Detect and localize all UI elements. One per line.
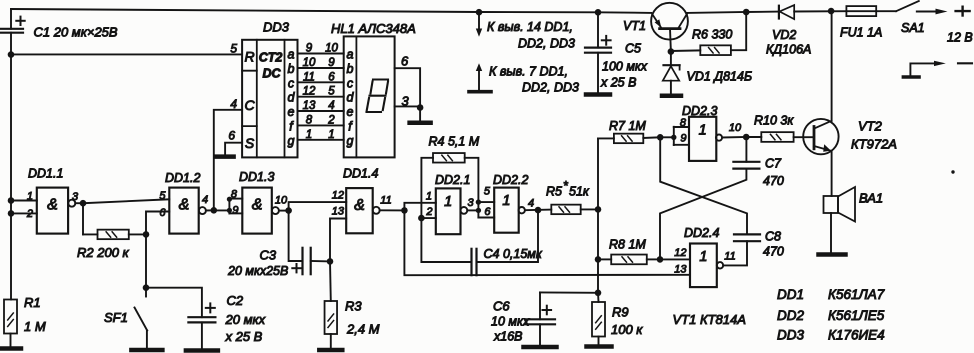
svg-text:470: 470 xyxy=(763,245,784,259)
svg-text:c: c xyxy=(288,76,295,90)
svg-text:1: 1 xyxy=(328,129,334,141)
svg-text:6: 6 xyxy=(401,54,409,69)
svg-text:20 мкх: 20 мкх xyxy=(225,312,266,327)
svg-text:S: S xyxy=(245,135,255,151)
svg-text:SA1: SA1 xyxy=(901,21,925,35)
svg-text:FU1 1А: FU1 1А xyxy=(840,26,882,40)
svg-text:R1: R1 xyxy=(24,295,41,310)
svg-text:a: a xyxy=(288,48,295,62)
svg-text:DD2: DD2 xyxy=(777,308,804,323)
svg-text:10 мкх: 10 мкх xyxy=(491,315,530,329)
svg-text:R10 3к: R10 3к xyxy=(754,114,794,128)
svg-text:10: 10 xyxy=(275,195,288,207)
svg-text:4: 4 xyxy=(328,100,334,112)
svg-text:К561ЛА7: К561ЛА7 xyxy=(828,287,885,302)
svg-text:6: 6 xyxy=(159,207,166,219)
svg-text:DD2.3: DD2.3 xyxy=(682,104,717,118)
svg-text:3: 3 xyxy=(467,197,474,209)
svg-text:х16В: х16В xyxy=(493,330,523,344)
svg-text:VD2: VD2 xyxy=(772,28,796,42)
svg-text:13: 13 xyxy=(303,100,316,112)
svg-text:С1 20 мк×25В: С1 20 мк×25В xyxy=(34,25,118,40)
svg-text:12: 12 xyxy=(332,190,344,202)
svg-text:VT2: VT2 xyxy=(858,119,883,134)
svg-text:10: 10 xyxy=(303,57,316,69)
svg-text:3: 3 xyxy=(402,94,410,109)
svg-text:R9: R9 xyxy=(612,305,629,320)
svg-text:DD1.2: DD1.2 xyxy=(165,171,200,185)
svg-text:9: 9 xyxy=(328,57,335,69)
svg-text:2,4 М: 2,4 М xyxy=(346,322,380,337)
svg-text:11: 11 xyxy=(303,71,315,83)
svg-text:100 к: 100 к xyxy=(611,322,643,337)
svg-text:DD2, DD3: DD2, DD3 xyxy=(518,37,575,51)
svg-text:12: 12 xyxy=(303,86,316,98)
svg-text:11: 11 xyxy=(380,195,391,207)
svg-text:100 мкх: 100 мкх xyxy=(602,60,648,74)
svg-text:С7: С7 xyxy=(765,157,782,171)
svg-text:10: 10 xyxy=(325,43,338,55)
svg-text:1: 1 xyxy=(306,129,312,141)
svg-text:К выв. 7 DD1,: К выв. 7 DD1, xyxy=(489,65,568,79)
svg-text:d: d xyxy=(347,91,355,105)
svg-text:1: 1 xyxy=(426,191,432,203)
svg-text:e: e xyxy=(288,105,295,119)
svg-text:b: b xyxy=(347,62,354,76)
svg-text:2: 2 xyxy=(327,114,335,126)
svg-text:х 25 В: х 25 В xyxy=(225,329,263,344)
svg-text:13: 13 xyxy=(332,206,345,218)
svg-text:DD1.1: DD1.1 xyxy=(28,167,63,181)
svg-text:DD2.2: DD2.2 xyxy=(493,173,528,187)
svg-text:VT1 КТ814А: VT1 КТ814А xyxy=(673,312,746,327)
svg-text:R2 200 к: R2 200 к xyxy=(77,245,130,260)
svg-text:51к: 51к xyxy=(569,185,590,199)
svg-text:C: C xyxy=(244,97,255,113)
svg-text:HL1 АЛС348А: HL1 АЛС348А xyxy=(331,21,416,36)
svg-text:х 25 В: х 25 В xyxy=(600,76,636,90)
svg-text:CT2: CT2 xyxy=(259,51,283,65)
svg-text:С8: С8 xyxy=(765,230,781,244)
svg-text:КТ972А: КТ972А xyxy=(851,137,897,152)
svg-text:DD1.3: DD1.3 xyxy=(239,170,274,184)
svg-text:4: 4 xyxy=(230,97,237,111)
svg-text:d: d xyxy=(288,91,296,105)
svg-text:10: 10 xyxy=(729,122,742,134)
svg-text:&: & xyxy=(354,197,365,214)
svg-text:1: 1 xyxy=(502,193,510,209)
svg-text:С3: С3 xyxy=(260,248,277,263)
svg-text:6: 6 xyxy=(484,206,491,218)
svg-text:R3: R3 xyxy=(345,299,362,314)
svg-text:12: 12 xyxy=(674,247,686,259)
svg-text:1: 1 xyxy=(444,194,452,210)
svg-text:5: 5 xyxy=(484,186,491,198)
svg-text:DD1.4: DD1.4 xyxy=(343,167,378,181)
svg-text:&: & xyxy=(252,197,263,214)
svg-text:g: g xyxy=(347,134,354,148)
svg-text:С5: С5 xyxy=(625,42,641,56)
svg-text:С6: С6 xyxy=(493,299,510,314)
svg-text:VT1: VT1 xyxy=(623,19,646,33)
svg-text:DC: DC xyxy=(262,67,281,81)
svg-text:R: R xyxy=(244,49,254,65)
svg-text:1: 1 xyxy=(699,249,707,265)
svg-text:6: 6 xyxy=(228,129,235,143)
svg-text:DD2.4: DD2.4 xyxy=(684,226,719,240)
svg-text:К176ИЕ4: К176ИЕ4 xyxy=(828,328,885,343)
svg-text:11: 11 xyxy=(724,251,735,263)
svg-text:1: 1 xyxy=(699,122,707,138)
svg-text:3: 3 xyxy=(72,191,79,203)
svg-text:R7 1М: R7 1М xyxy=(609,119,646,133)
svg-text:6: 6 xyxy=(328,71,335,83)
svg-text:1 М: 1 М xyxy=(24,319,46,334)
svg-text:a: a xyxy=(347,48,354,62)
svg-text:DD3: DD3 xyxy=(263,20,290,35)
svg-text:SF1: SF1 xyxy=(104,310,128,325)
svg-text:VD1 Д814Б: VD1 Д814Б xyxy=(687,70,753,84)
svg-text:R4 5,1 М: R4 5,1 М xyxy=(429,135,480,149)
svg-text:DD1: DD1 xyxy=(777,287,804,302)
svg-text:e: e xyxy=(347,105,354,119)
svg-text:470: 470 xyxy=(763,174,784,188)
svg-text:5: 5 xyxy=(230,42,237,56)
svg-text:DD3: DD3 xyxy=(777,328,804,343)
svg-text:20 мкх25В: 20 мкх25В xyxy=(227,264,288,278)
svg-text:R6 330: R6 330 xyxy=(692,28,732,42)
svg-text:4: 4 xyxy=(202,194,208,206)
svg-text:&: & xyxy=(179,197,190,214)
svg-text:5: 5 xyxy=(159,190,166,202)
svg-text:К выв. 14 DD1,: К выв. 14 DD1, xyxy=(487,20,573,34)
svg-text:ВА1: ВА1 xyxy=(859,191,883,206)
svg-text:12 В: 12 В xyxy=(947,31,973,45)
svg-text:9: 9 xyxy=(680,133,686,145)
svg-text:9: 9 xyxy=(232,205,238,217)
svg-text:С2: С2 xyxy=(227,293,244,308)
svg-text:g: g xyxy=(288,134,295,148)
svg-text:1: 1 xyxy=(27,191,33,203)
svg-text:DD2.1: DD2.1 xyxy=(435,173,470,187)
svg-text:R8 1М: R8 1М xyxy=(609,238,646,252)
svg-text:8: 8 xyxy=(680,117,687,129)
svg-text:b: b xyxy=(288,62,295,76)
svg-text:9: 9 xyxy=(306,43,313,55)
svg-text:DD2, DD3: DD2, DD3 xyxy=(522,81,579,95)
svg-text:КД106А: КД106А xyxy=(766,43,811,57)
svg-text:5: 5 xyxy=(328,86,335,98)
svg-text:4: 4 xyxy=(528,198,534,210)
svg-text:8: 8 xyxy=(306,114,313,126)
svg-text:2: 2 xyxy=(26,208,33,220)
svg-text:&: & xyxy=(47,197,58,214)
svg-text:К561ЛЕ5: К561ЛЕ5 xyxy=(828,308,885,323)
svg-text:R5: R5 xyxy=(546,185,562,199)
svg-text:c: c xyxy=(347,76,354,90)
svg-text:8: 8 xyxy=(231,189,238,201)
svg-text:13: 13 xyxy=(674,264,687,276)
svg-text:С4 0,15мк: С4 0,15мк xyxy=(484,247,543,261)
svg-text:2: 2 xyxy=(425,206,432,218)
